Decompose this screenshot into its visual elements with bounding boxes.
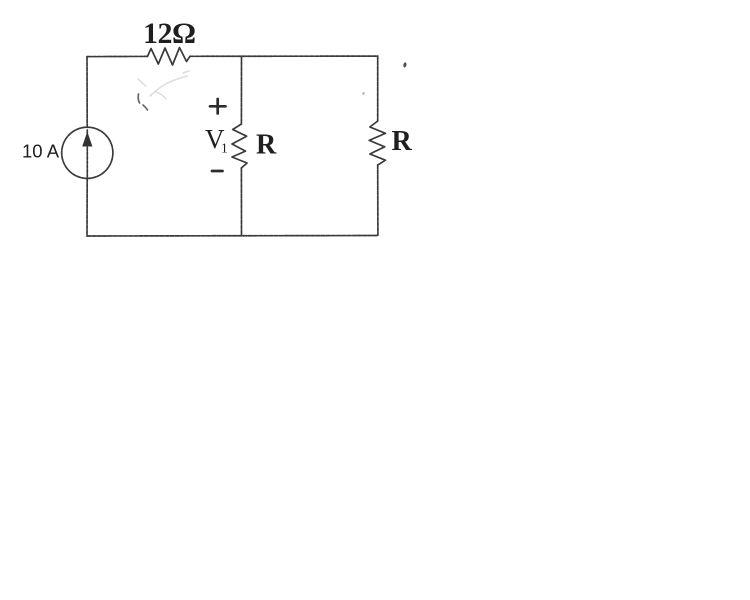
- current source I1 arrow shaft: [86, 130, 88, 178]
- stray faint dot: [362, 92, 364, 94]
- resistor R2 right zigzag: [369, 121, 385, 165]
- current source I1 arrowhead: [82, 132, 92, 147]
- resistor R1 middle zigzag: [232, 124, 247, 168]
- wire middle vertical lower: [240, 168, 242, 236]
- wire middle vertical upper: [240, 56, 242, 124]
- svg-text:R: R: [392, 126, 413, 157]
- wire bottom: [87, 235, 378, 238]
- wire left vertical lower: [86, 178, 88, 236]
- label minus sign of V1: [212, 170, 223, 173]
- svg-text:12Ω: 12Ω: [143, 17, 196, 50]
- svg-text:1: 1: [221, 141, 228, 156]
- resistor R3 12ohm zigzag: [148, 48, 191, 66]
- svg-text:10 A: 10 A: [22, 141, 60, 162]
- wire top-right segment: [190, 55, 378, 57]
- svg-text:R: R: [256, 130, 277, 161]
- wire top-left segment: [87, 55, 148, 57]
- stray faint smudge (erased pencil): [138, 71, 189, 99]
- stray ink speck top right: [403, 62, 407, 68]
- wire right vertical lower: [377, 165, 379, 235]
- wire left vertical upper: [86, 57, 88, 128]
- stray darker smudge marks: [138, 94, 147, 110]
- current source I1 circle: [62, 127, 113, 178]
- wire right vertical upper: [377, 56, 379, 121]
- label plus sign of V1: [210, 99, 226, 114]
